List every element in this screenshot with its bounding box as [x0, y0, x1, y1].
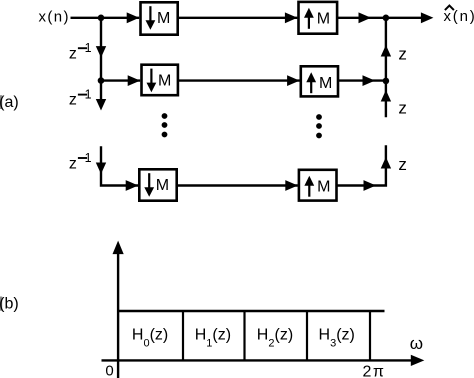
svg-text:M: M [319, 75, 332, 92]
svg-text:z: z [69, 46, 77, 63]
svg-text:x(n): x(n) [39, 8, 70, 25]
svg-text:x(n): x(n) [444, 8, 474, 25]
svg-text:M: M [156, 177, 169, 194]
svg-text:M: M [317, 178, 330, 195]
svg-text:z: z [398, 155, 407, 174]
svg-text:M: M [317, 11, 330, 28]
svg-text:ω: ω [410, 334, 423, 353]
svg-text:M: M [158, 72, 171, 89]
svg-text:M: M [157, 10, 170, 27]
svg-text:1: 1 [85, 41, 92, 55]
svg-text:z: z [69, 92, 77, 109]
svg-text:(a): (a) [0, 94, 19, 111]
svg-text:1: 1 [85, 87, 92, 101]
svg-text:z: z [69, 156, 77, 173]
svg-text:(b): (b) [0, 296, 19, 313]
svg-text:2π: 2π [363, 364, 386, 378]
svg-text:0: 0 [105, 363, 113, 378]
svg-text:1: 1 [85, 151, 92, 165]
svg-text:z: z [398, 98, 407, 117]
svg-text:z: z [398, 45, 407, 64]
